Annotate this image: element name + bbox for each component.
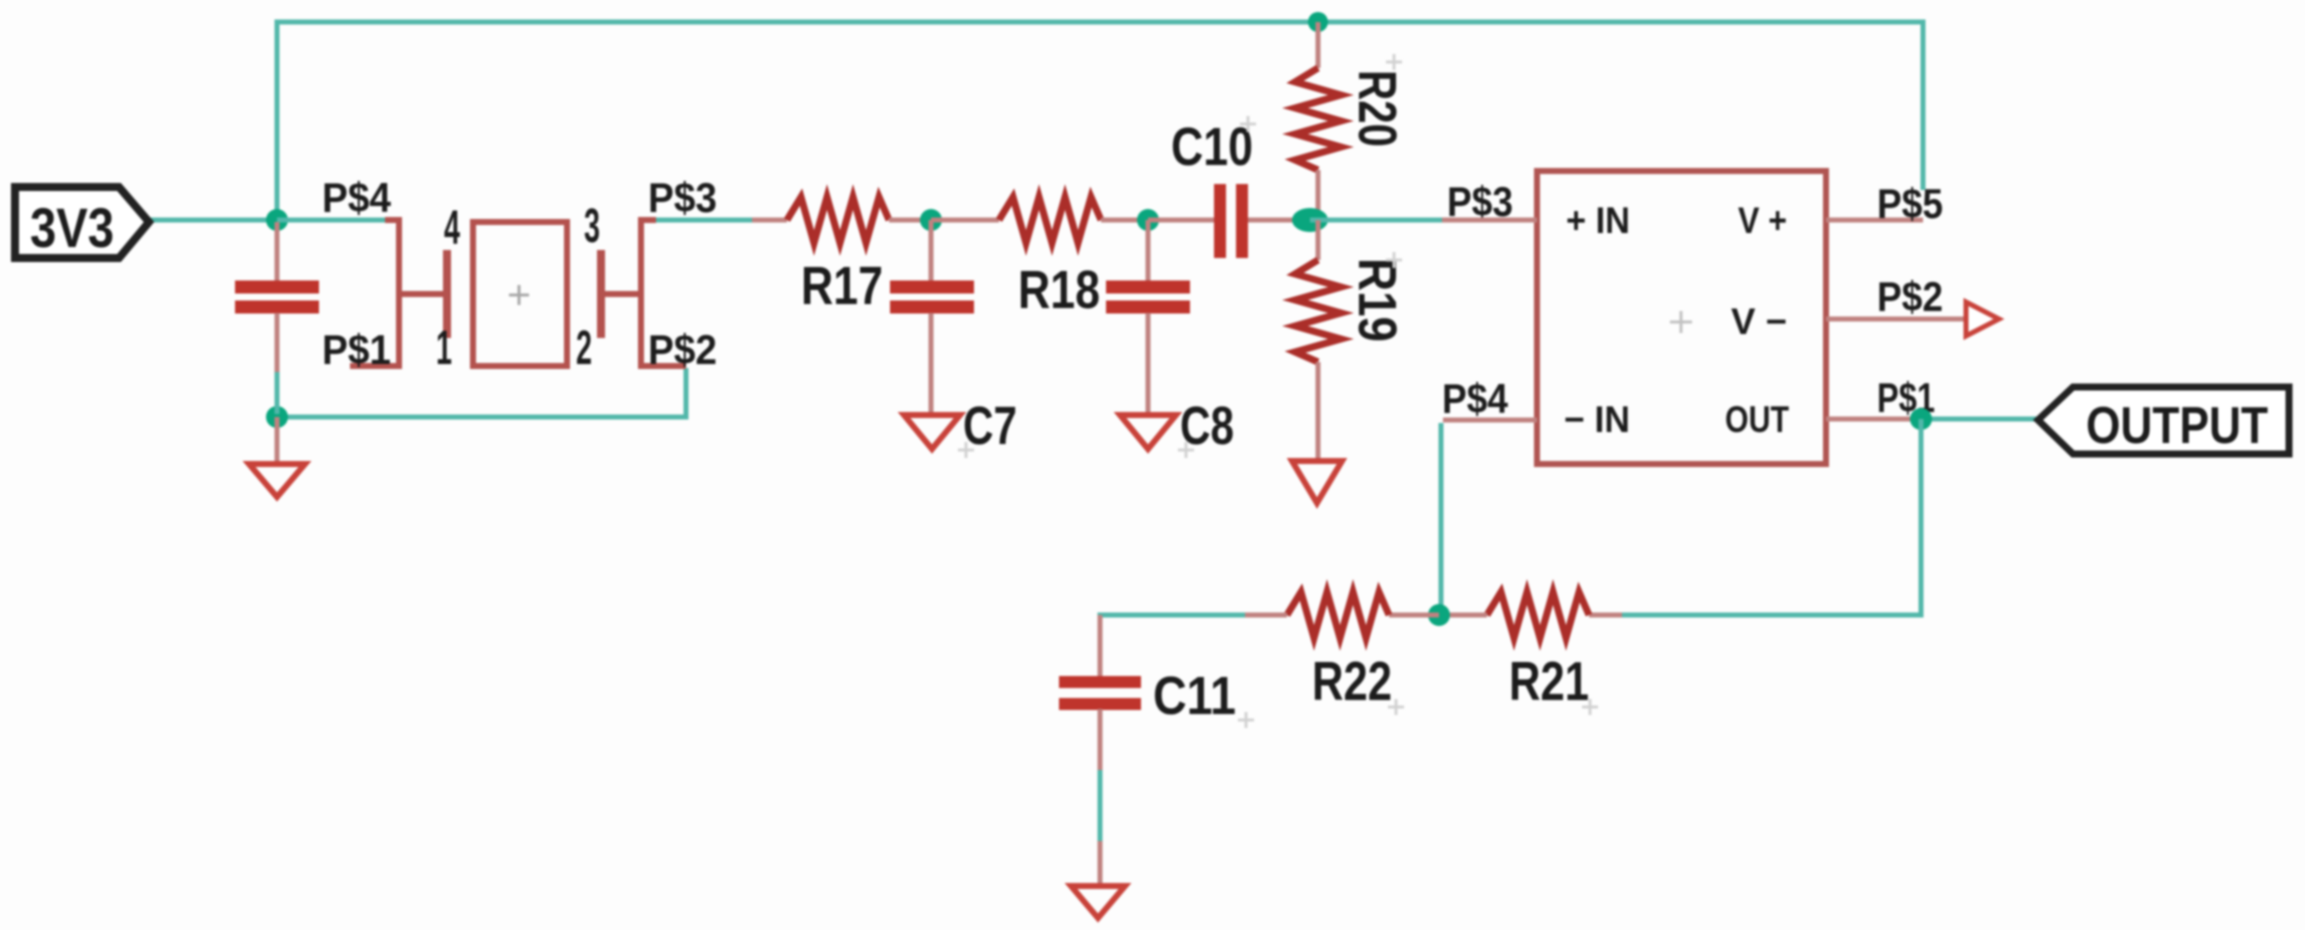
wire 3V3 to junction [148, 218, 280, 223]
capacitor C7 [890, 220, 1017, 456]
wire junction to crystal P$4 [277, 218, 385, 223]
op-amp pin +IN stub [1442, 218, 1537, 223]
svg-text:OUT: OUT [1725, 399, 1789, 440]
crystal right bus [641, 220, 686, 366]
origin cross C7 [958, 442, 974, 458]
wire -IN feedback vertical [1439, 423, 1444, 615]
node junction C10/R20/R19 [1292, 208, 1328, 232]
origin cross C10 [1240, 116, 1256, 132]
wire R22 to C11 [1100, 615, 1245, 618]
svg-text:3: 3 [584, 200, 600, 253]
crystal Y1 [350, 220, 686, 366]
svg-text:V −: V − [1731, 301, 1787, 342]
wire top rail 3V3 [277, 22, 1923, 220]
origin cross C8 [1178, 442, 1194, 458]
node junction bottom left [266, 406, 288, 428]
svg-text:2: 2 [576, 322, 592, 375]
wire cap to junction [275, 372, 280, 414]
crystal left plate [443, 250, 451, 338]
svg-text:+ IN: + IN [1566, 200, 1630, 241]
svg-text:P$2: P$2 [1877, 273, 1943, 320]
origin cross R20 [1386, 54, 1402, 70]
ground below R19 [1292, 461, 1342, 503]
capacitor C10 [1148, 117, 1300, 258]
capacitor C11 [1059, 615, 1236, 772]
wire crystal P$3 to R17 [656, 218, 754, 223]
capacitor C6 plates [235, 287, 319, 307]
crystal right plate [597, 250, 605, 338]
svg-text:C11: C11 [1153, 666, 1236, 726]
svg-text:C7: C7 [963, 396, 1017, 456]
node junction 3V3 [266, 209, 288, 231]
svg-text:R21: R21 [1509, 650, 1589, 712]
svg-text:R19: R19 [1347, 258, 1407, 342]
resistor R17 [752, 197, 931, 316]
crystal origin cross [509, 285, 529, 305]
svg-text:P$3: P$3 [648, 174, 717, 221]
resistor R21 [1439, 592, 1622, 712]
op-amp pin V- stub [1826, 317, 1966, 322]
wire OUT to OUTPUT flag [1916, 417, 2042, 422]
svg-text:OUTPUT: OUTPUT [2086, 397, 2268, 455]
resistor R18 [931, 197, 1148, 320]
svg-text:C8: C8 [1180, 396, 1234, 456]
svg-text:V +: V + [1738, 200, 1787, 241]
op-amp pin -IN stub [1443, 418, 1537, 423]
origin cross C11 [1238, 712, 1254, 728]
net flag OUTPUT [2038, 387, 2289, 455]
resistor R19 [1295, 220, 1407, 461]
crystal left bus [350, 220, 399, 366]
ground below C11 [1071, 841, 1125, 918]
svg-text:P$5: P$5 [1877, 180, 1943, 227]
svg-text:R17: R17 [801, 256, 883, 316]
svg-text:P$2: P$2 [648, 326, 717, 373]
svg-text:P$4: P$4 [1442, 375, 1509, 422]
node junction feedback [1428, 604, 1450, 626]
svg-text:P$4: P$4 [322, 174, 392, 221]
crystal right connector [604, 291, 641, 297]
wire C11 to ground [1098, 770, 1103, 843]
ground below C6 [249, 417, 305, 497]
power flag 3V3 [15, 187, 149, 259]
capacitor C6 lead bottom [275, 313, 280, 374]
node junction OUT [1910, 408, 1932, 430]
svg-text:R22: R22 [1312, 650, 1392, 712]
svg-text:1: 1 [436, 322, 452, 375]
crystal left connector [399, 291, 444, 297]
ground below C8 [1120, 415, 1176, 449]
svg-text:P$1: P$1 [322, 326, 391, 373]
crystal body [473, 222, 567, 366]
origin cross R21 [1582, 699, 1598, 715]
capacitor C6 lead top [275, 222, 280, 281]
svg-text:3V3: 3V3 [30, 196, 114, 259]
op-amp U1 [1537, 171, 1826, 464]
ground below C7 [904, 415, 960, 449]
resistor R22 [1243, 592, 1439, 712]
op-amp pin V+ stub [1826, 218, 1923, 223]
svg-text:4: 4 [444, 202, 460, 255]
node junction top rail R20 [1308, 12, 1328, 32]
svg-text:C10: C10 [1171, 117, 1253, 177]
node junction R17/C7 [920, 209, 942, 231]
op-amp pin OUT stub [1826, 417, 1916, 422]
origin cross R22 [1388, 699, 1404, 715]
capacitor C8 [1106, 220, 1234, 456]
svg-text:R20: R20 [1347, 70, 1407, 147]
svg-text:R18: R18 [1018, 260, 1100, 320]
wire junction to op-amp +IN [1310, 218, 1442, 223]
origin cross R19 [1386, 252, 1402, 268]
op-amp origin cross [1670, 311, 1692, 333]
arrow V- open [1966, 302, 1999, 336]
wire bottom return P$2 to cap [277, 368, 686, 417]
resistor R20 [1295, 22, 1407, 220]
wire OUT down to feedback [1622, 419, 1921, 615]
svg-text:− IN: − IN [1564, 399, 1630, 440]
node junction R18/C8 [1137, 209, 1159, 231]
